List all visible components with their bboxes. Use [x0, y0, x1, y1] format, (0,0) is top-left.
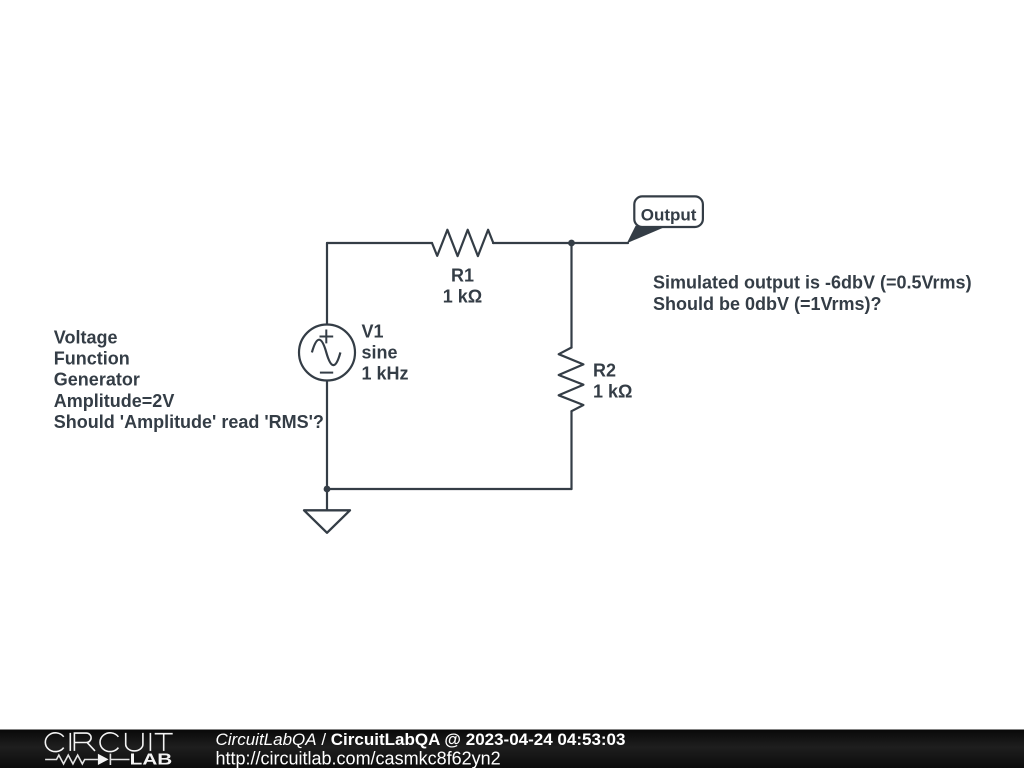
svg-text:sine: sine [362, 342, 398, 362]
svg-text:Function: Function [54, 349, 130, 369]
logo resistor-diode [45, 754, 129, 765]
wire bottom horizontal [327, 488, 572, 490]
svg-text:Should 'Amplitude' read 'RMS'?: Should 'Amplitude' read 'RMS'? [54, 412, 324, 432]
wire V1 top lead [326, 243, 328, 325]
svg-text:V1: V1 [362, 321, 384, 341]
svg-text:1 kHz: 1 kHz [362, 364, 409, 384]
output flag box [634, 196, 703, 227]
svg-text:R2: R2 [593, 361, 616, 381]
logo CIRCUIT [45, 733, 172, 752]
resistor R1 [432, 230, 493, 256]
ground [304, 510, 350, 533]
label V1 name/value [362, 321, 409, 383]
label R2 name/value [593, 361, 632, 402]
svg-text:Generator: Generator [54, 370, 140, 390]
wire R2 bottom lead [570, 411, 572, 489]
svg-text:R1: R1 [451, 265, 474, 285]
wire V1 bottom lead [326, 381, 328, 490]
footer bar [0, 730, 1024, 768]
wire R1 to output node [493, 242, 628, 244]
svg-text:Should be 0dbV (=1Vrms)?: Should be 0dbV (=1Vrms)? [653, 294, 882, 314]
svg-text:1 kΩ: 1 kΩ [593, 382, 632, 402]
svg-text:CircuitLabQA / CircuitLabQA @: CircuitLabQA / CircuitLabQA @ 2023-04-24… [216, 730, 626, 749]
wire ground stem [326, 489, 328, 510]
wire node to R2 top [570, 243, 572, 348]
annotation right [653, 273, 972, 314]
output flag tail [627, 226, 664, 243]
svg-text:1 kΩ: 1 kΩ [443, 287, 482, 307]
svg-text:Voltage: Voltage [54, 328, 118, 348]
svg-text:LAB: LAB [130, 752, 173, 768]
svg-text:Output: Output [641, 205, 697, 224]
wire top horizontal to R1 [327, 242, 432, 244]
label R1 name/value [443, 265, 482, 306]
node junction at bottom [324, 486, 331, 493]
voltage source V1 [299, 325, 355, 381]
svg-text:Simulated output is -6dbV (=0.: Simulated output is -6dbV (=0.5Vrms) [653, 273, 972, 293]
node junction at output [568, 240, 575, 247]
resistor R2 [559, 348, 584, 412]
svg-text:Amplitude=2V: Amplitude=2V [54, 391, 175, 411]
svg-text:http://circuitlab.com/casmkc8f: http://circuitlab.com/casmkc8f62yn2 [216, 749, 501, 768]
annotation left [54, 328, 324, 432]
